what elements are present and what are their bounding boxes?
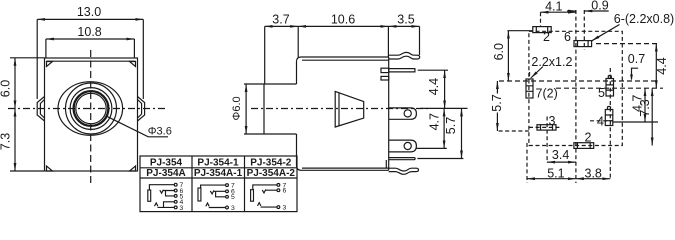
svg-text:4: 4 <box>597 115 604 129</box>
svg-text:10.8: 10.8 <box>77 25 101 39</box>
svg-text:3: 3 <box>180 205 184 212</box>
svg-text:3: 3 <box>283 205 287 212</box>
svg-text:3.4: 3.4 <box>552 148 569 162</box>
svg-text:5: 5 <box>598 86 605 100</box>
svg-text:0.7: 0.7 <box>628 52 645 66</box>
svg-text:7.3: 7.3 <box>0 133 12 150</box>
svg-text:13.0: 13.0 <box>77 5 101 19</box>
svg-text:3: 3 <box>231 205 235 212</box>
svg-text:6.0: 6.0 <box>492 43 506 60</box>
svg-text:2: 2 <box>585 131 592 145</box>
svg-text:PJ-354A-1: PJ-354A-1 <box>194 168 243 179</box>
svg-text:7.3: 7.3 <box>638 99 652 116</box>
svg-text:6: 6 <box>283 188 287 195</box>
svg-text:4.1: 4.1 <box>545 0 562 13</box>
svg-text:5.7: 5.7 <box>444 117 458 134</box>
svg-text:2: 2 <box>543 30 550 44</box>
svg-text:6-(2.2x0.8): 6-(2.2x0.8) <box>614 12 674 26</box>
svg-text:PJ-354A-2: PJ-354A-2 <box>247 168 296 179</box>
svg-text:4.7: 4.7 <box>427 113 441 130</box>
svg-text:4.4: 4.4 <box>655 57 669 74</box>
svg-text:Φ6.0: Φ6.0 <box>231 96 243 120</box>
svg-text:5.7: 5.7 <box>490 94 504 111</box>
svg-text:6: 6 <box>564 30 571 44</box>
svg-text:2.2x1.2: 2.2x1.2 <box>531 55 572 69</box>
svg-text:10.6: 10.6 <box>331 12 355 26</box>
svg-text:5.1: 5.1 <box>547 166 564 180</box>
svg-text:4.4: 4.4 <box>427 78 441 95</box>
svg-text:3.8: 3.8 <box>585 166 602 180</box>
svg-text:6.0: 6.0 <box>0 80 12 97</box>
svg-text:3.5: 3.5 <box>397 12 414 26</box>
svg-text:3: 3 <box>549 114 556 128</box>
svg-text:3.7: 3.7 <box>272 12 289 26</box>
svg-text:7(2): 7(2) <box>536 87 558 101</box>
svg-text:0.9: 0.9 <box>591 0 608 13</box>
svg-text:PJ-354A: PJ-354A <box>146 168 185 179</box>
svg-text:5: 5 <box>231 194 235 201</box>
svg-text:Φ3.6: Φ3.6 <box>148 125 172 137</box>
